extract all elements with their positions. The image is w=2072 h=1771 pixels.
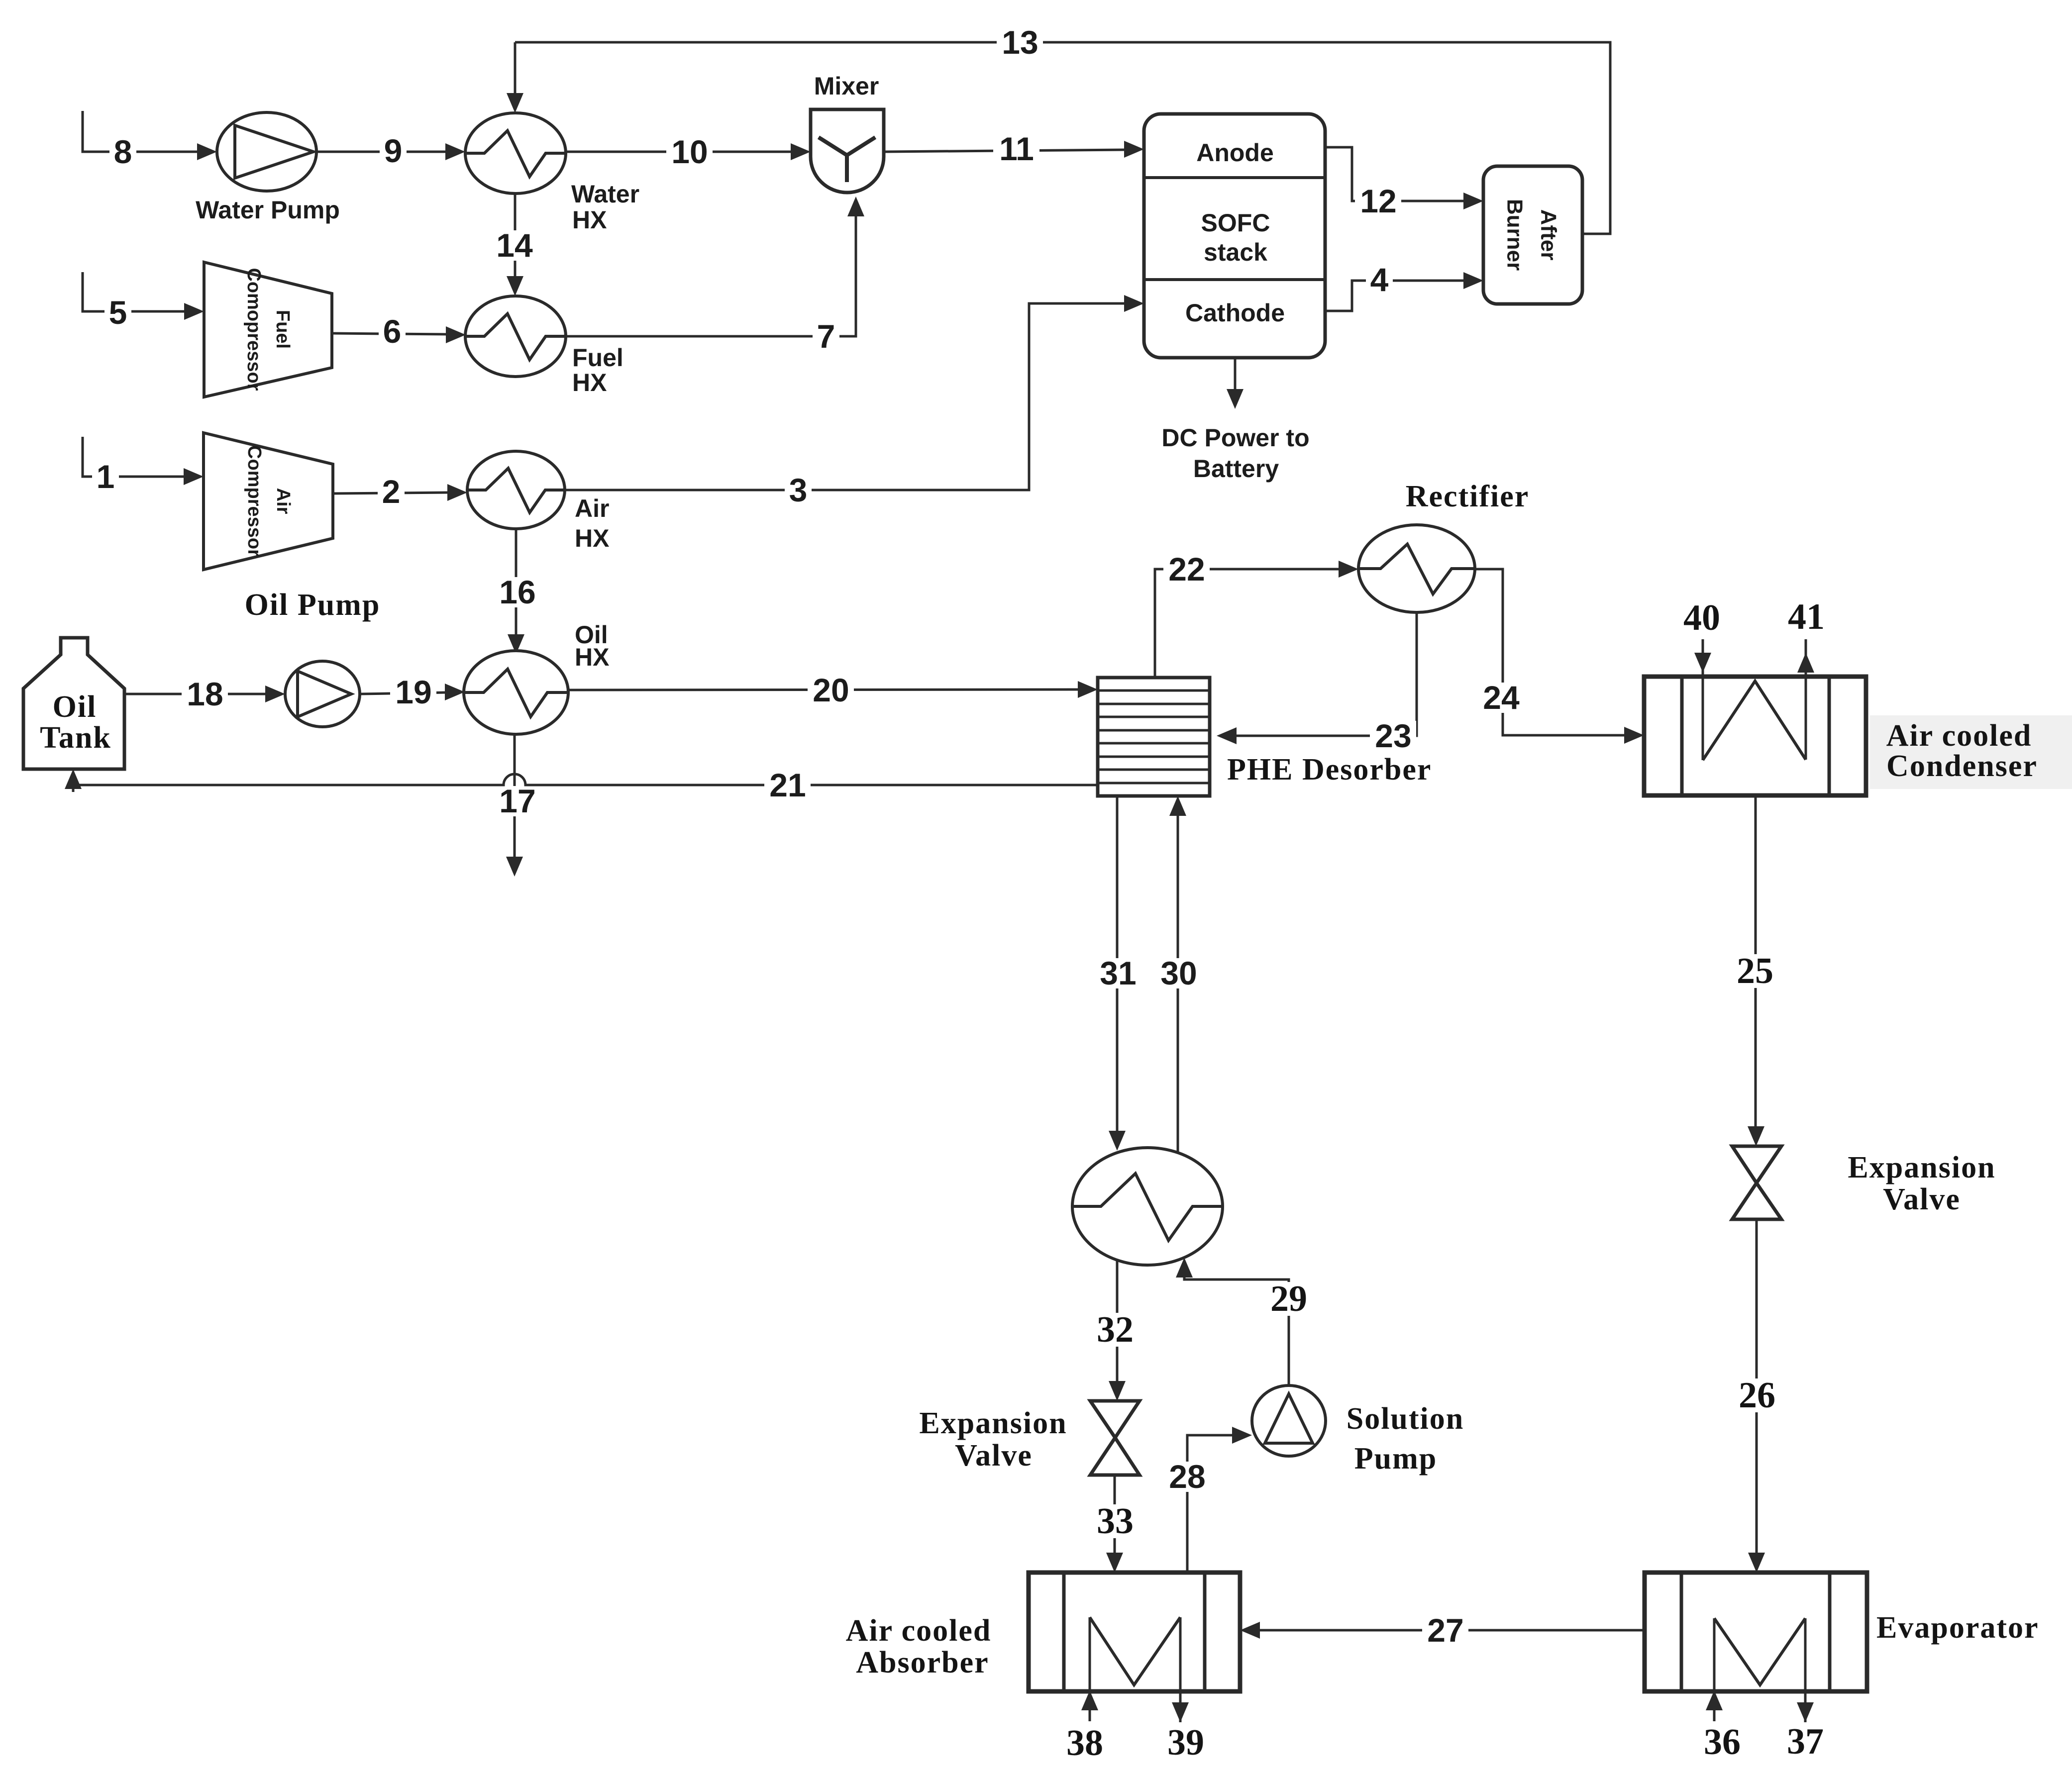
wire stream 23 <box>1217 612 1417 754</box>
svg-text:38: 38 <box>1066 1723 1103 1764</box>
svg-text:16: 16 <box>499 574 535 610</box>
svg-text:SOFC: SOFC <box>1201 209 1270 237</box>
svg-text:Comopressor: Comopressor <box>243 268 264 391</box>
condenser Air cooled Condenser box <box>1644 677 1866 795</box>
wire stream 19 <box>360 674 465 710</box>
svg-text:26: 26 <box>1739 1375 1775 1416</box>
svg-text:Anode: Anode <box>1196 139 1274 167</box>
heat exchanger PHE Desorber <box>1098 678 1210 796</box>
svg-text:1: 1 <box>97 458 115 495</box>
label Expansion Valve left <box>919 1406 1067 1473</box>
svg-text:18: 18 <box>187 676 223 712</box>
svg-text:37: 37 <box>1787 1721 1824 1762</box>
svg-text:Burner: Burner <box>1503 199 1527 271</box>
svg-text:stack: stack <box>1204 238 1267 266</box>
mixer Mixer <box>811 72 884 193</box>
svg-text:29: 29 <box>1270 1279 1307 1319</box>
label Evaporator <box>1876 1611 2039 1645</box>
svg-text:2: 2 <box>382 473 401 510</box>
wire stream 30 <box>1155 796 1202 1153</box>
wire stream 9 <box>316 132 465 169</box>
absorber coil <box>1090 1617 1180 1685</box>
wire stream 24 <box>1475 569 1644 744</box>
svg-text:PHE Desorber: PHE Desorber <box>1227 753 1432 787</box>
heat exchanger Water HX <box>465 113 639 234</box>
wire stream 1 inlet <box>83 437 204 495</box>
wire stream 22 <box>1155 551 1358 678</box>
wire stream 21 <box>65 767 1098 803</box>
wire stream 13 return into Water HX <box>507 42 523 113</box>
svg-text:Water Pump: Water Pump <box>196 196 340 224</box>
svg-text:41: 41 <box>1788 596 1825 637</box>
svg-text:Cathode: Cathode <box>1185 299 1285 327</box>
svg-text:HX: HX <box>572 369 607 396</box>
pump Solution Pump <box>1252 1385 1326 1456</box>
heat exchanger Solution HX <box>1072 1148 1223 1265</box>
svg-text:Air: Air <box>273 488 294 514</box>
pump Oil Pump <box>285 661 360 727</box>
label Oil Pump <box>245 588 381 622</box>
wire stream 8 inlet <box>83 111 217 170</box>
svg-text:Evaporator: Evaporator <box>1876 1611 2039 1645</box>
condenser coil <box>1703 681 1806 760</box>
label Expansion Valve right <box>1848 1151 1995 1216</box>
wire stream 26 <box>1732 1219 1783 1573</box>
wire stream 13 <box>515 24 1610 234</box>
wire stream 3 <box>565 295 1144 508</box>
svg-text:Battery: Battery <box>1193 455 1279 483</box>
burner After Burner <box>1483 166 1582 304</box>
wire stream 14 <box>491 194 537 296</box>
wire stream 5 inlet <box>83 272 204 331</box>
svg-text:40: 40 <box>1683 597 1720 638</box>
label Air cooled Condenser <box>1886 719 2038 783</box>
svg-text:Condenser: Condenser <box>1886 749 2038 783</box>
pump Water Pump <box>196 112 340 224</box>
svg-text:24: 24 <box>1483 679 1520 716</box>
wire stream 33 <box>1090 1475 1141 1573</box>
wire stream 28 <box>1164 1427 1252 1573</box>
label Rectifier <box>1406 480 1530 513</box>
svg-text:39: 39 <box>1167 1722 1204 1763</box>
wire stream 38 <box>1066 1617 1103 1764</box>
svg-text:Oil Pump: Oil Pump <box>245 588 381 622</box>
svg-text:32: 32 <box>1097 1309 1134 1350</box>
evaporator coil <box>1714 1618 1805 1685</box>
svg-text:Water: Water <box>571 180 639 208</box>
svg-text:33: 33 <box>1097 1501 1134 1542</box>
svg-text:7: 7 <box>817 318 835 355</box>
svg-text:22: 22 <box>1168 551 1205 588</box>
compressor Fuel Compressor <box>204 262 332 397</box>
svg-text:HX: HX <box>572 206 607 234</box>
svg-text:Air cooled: Air cooled <box>846 1614 992 1648</box>
svg-text:25: 25 <box>1737 951 1773 991</box>
svg-text:Compressor: Compressor <box>244 445 265 557</box>
svg-text:Expansion: Expansion <box>1848 1151 1995 1184</box>
valve Expansion Valve right <box>1732 1146 1781 1219</box>
heat exchanger Rectifier <box>1358 525 1475 612</box>
svg-text:28: 28 <box>1169 1458 1205 1495</box>
wire stream 37 <box>1787 1618 1824 1762</box>
svg-text:36: 36 <box>1704 1722 1741 1763</box>
svg-text:11: 11 <box>999 130 1034 167</box>
svg-text:Expansion: Expansion <box>919 1406 1067 1440</box>
svg-text:Rectifier: Rectifier <box>1406 480 1530 513</box>
wire stream 39 <box>1167 1617 1204 1763</box>
svg-text:Valve: Valve <box>955 1439 1033 1473</box>
svg-text:Mixer: Mixer <box>814 72 879 100</box>
label PHE Desorber <box>1227 753 1432 787</box>
wire stream 32 <box>1090 1260 1141 1401</box>
svg-text:After: After <box>1537 209 1561 261</box>
svg-text:14: 14 <box>496 227 533 264</box>
svg-text:Oil: Oil <box>53 690 97 724</box>
valve Expansion Valve left <box>1090 1401 1140 1475</box>
svg-text:12: 12 <box>1360 183 1396 219</box>
svg-text:HX: HX <box>575 643 609 671</box>
svg-text:27: 27 <box>1427 1612 1463 1649</box>
svg-text:HX: HX <box>575 524 609 552</box>
wire stream 7 <box>566 197 864 355</box>
svg-text:13: 13 <box>1002 24 1038 61</box>
wire stream 41 <box>1788 596 1825 760</box>
wire stream 27 <box>1240 1612 1645 1649</box>
heat exchanger Fuel HX <box>465 296 623 396</box>
svg-text:31: 31 <box>1100 955 1136 991</box>
wire stream 20 <box>568 672 1098 708</box>
wire stream 11 <box>884 130 1144 167</box>
svg-text:21: 21 <box>769 767 806 803</box>
svg-text:4: 4 <box>1370 261 1389 298</box>
svg-text:Absorber: Absorber <box>856 1646 989 1679</box>
svg-text:Solution: Solution <box>1347 1402 1464 1436</box>
svg-text:Fuel: Fuel <box>272 310 293 349</box>
wire stream 31 <box>1095 796 1141 1151</box>
tank Oil Tank <box>23 638 124 769</box>
label DC Power to Battery <box>1161 424 1309 483</box>
svg-text:5: 5 <box>109 294 127 331</box>
wire stream 4 <box>1325 261 1483 311</box>
svg-text:19: 19 <box>395 674 431 710</box>
reactor SOFC stack <box>1144 114 1325 358</box>
absorber Air cooled Absorber box <box>1029 1573 1240 1691</box>
svg-text:30: 30 <box>1160 955 1197 991</box>
svg-text:Valve: Valve <box>1883 1182 1961 1216</box>
svg-text:DC Power to: DC Power to <box>1161 424 1309 452</box>
svg-text:Tank: Tank <box>40 721 111 755</box>
svg-text:Pump: Pump <box>1354 1442 1437 1476</box>
wire stream 10 <box>566 133 811 170</box>
wire stream 12 <box>1325 147 1483 219</box>
svg-text:Air cooled: Air cooled <box>1886 719 2032 753</box>
label Air cooled Absorber <box>846 1614 992 1679</box>
wire stream 18 <box>124 676 285 712</box>
wire stream 17 outlet <box>494 734 540 877</box>
wire stream 6 <box>332 313 466 350</box>
wire stream 29 <box>1176 1258 1315 1385</box>
wire stream 40 <box>1683 597 1720 760</box>
svg-text:Fuel: Fuel <box>572 344 623 372</box>
svg-text:8: 8 <box>114 133 132 170</box>
svg-text:17: 17 <box>499 783 535 819</box>
compressor Air Compressor <box>204 433 333 570</box>
svg-text:20: 20 <box>813 672 849 708</box>
svg-text:3: 3 <box>789 472 808 508</box>
wire stream 2 <box>333 473 467 510</box>
wire stream 25 <box>1730 795 1781 1146</box>
wire stream 36 <box>1704 1618 1741 1763</box>
svg-text:10: 10 <box>671 133 708 170</box>
svg-text:23: 23 <box>1375 717 1411 754</box>
svg-text:9: 9 <box>384 132 403 169</box>
label Solution Pump <box>1347 1402 1464 1476</box>
heat exchanger Air HX <box>467 451 609 552</box>
wire stream 16 <box>494 529 540 654</box>
shade behind condenser label <box>1870 715 2072 789</box>
wire DC power <box>1227 358 1243 409</box>
evaporator Evaporator box <box>1645 1573 1867 1691</box>
heat exchanger Oil HX <box>464 621 609 734</box>
svg-text:6: 6 <box>383 313 402 350</box>
svg-text:Air: Air <box>575 494 609 522</box>
